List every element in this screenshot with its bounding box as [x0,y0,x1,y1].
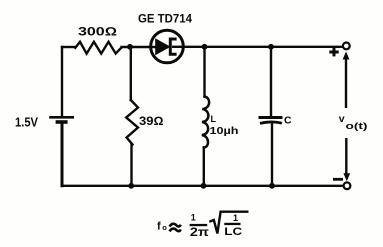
svg-text:o: o [162,223,167,232]
node: junction dot R1/R2 on top wire [127,44,133,50]
svg-text:10µh: 10µh [210,126,239,137]
wire: inside diode circle left lead [150,46,157,48]
wire: diode internal right lead [172,46,185,48]
minus sign [333,178,343,181]
svg-text:39Ω: 39Ω [139,114,164,128]
vo(t) arrow upper segment with up arrowhead [345,57,347,108]
wire: top wire from top-left corner to resistor R1 [62,46,75,48]
vo(t) arrow lower segment with down arrowhead [345,138,347,174]
svg-text:1.5V: 1.5V [15,116,39,130]
svg-text:1: 1 [233,213,238,223]
node: junction dot L on bottom wire [201,183,207,189]
node: junction dot L on top wire [202,44,208,50]
wire: capacitor C top lead [270,47,272,116]
wire: R1 to tunnel diode [122,46,150,48]
tunnel diode D1 cathode bar with hooks [170,39,176,54]
svg-text:C: C [284,115,292,127]
plus sign [329,48,338,57]
svg-text:L: L [211,114,217,124]
inductor L coil (4 humps) [202,97,209,148]
wire: bottom wire to bottom-right terminal [62,185,344,187]
svg-text:1: 1 [191,213,196,223]
svg-text:f: f [157,221,161,233]
wire: R2 39ohm top lead [130,47,132,100]
formula fo ~ 1/(2pi) sqrt(1/LC) [157,212,249,239]
resistor R1 300 ohm zigzag [75,42,121,54]
svg-text:LC: LC [224,226,242,238]
wire: capacitor bottom lead [271,125,273,186]
node: junction dot R2 on bottom wire [128,183,134,189]
svg-text:300Ω: 300Ω [78,25,117,39]
node: junction dot C on top wire [268,44,274,50]
capacitor C1 top plate [259,116,283,119]
formula: inner fraction bar [224,223,240,225]
terminal: bottom-right open circle [344,182,351,189]
wire: R2 bottom lead [130,145,132,186]
wire: left vertical from top corner down to battery [61,47,63,116]
formula: fraction bar [190,224,208,226]
formula: approx sign [170,224,181,227]
svg-text:v: v [339,113,345,125]
wire: inductor bottom lead [203,148,205,186]
svg-text:GE TD714: GE TD714 [138,12,192,26]
formula: radical sign [209,212,248,234]
wire: inductor L top lead [203,47,205,97]
svg-text:o(t): o(t) [346,121,368,131]
tunnel diode D1 circle [151,30,184,63]
terminal: top-right open circle [343,43,350,50]
wire: diode to top-right terminal [185,46,343,48]
tunnel diode D1 anode triangle [155,38,170,55]
resistor R2 39 ohm vertical zigzag [126,100,138,145]
wire: battery to bottom-left corner [61,124,64,186]
node: junction dot C on bottom wire [269,183,275,189]
svg-text:2π: 2π [190,225,209,239]
battery B1 1.5V plates [49,117,74,122]
capacitor C1 bottom plate (curved) [260,122,282,123]
